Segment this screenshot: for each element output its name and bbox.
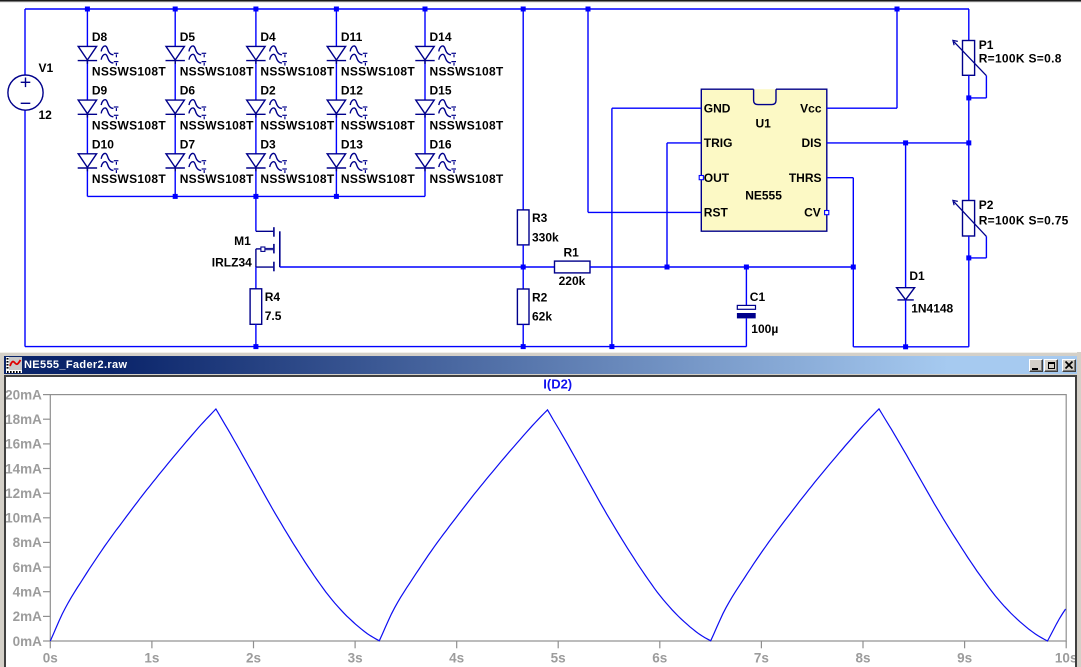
svg-text:I(D2): I(D2) (543, 377, 572, 392)
LED D7 (166, 153, 207, 173)
y tick 18mA (43, 418, 50, 420)
svg-text:THRS: THRS (789, 171, 822, 185)
svg-text:10mA: 10mA (6, 511, 42, 526)
svg-text:100µ: 100µ (751, 322, 778, 336)
pin marker CV (unconnected) (825, 211, 829, 215)
y tick 0mA (43, 640, 50, 642)
x tick 1s (151, 641, 153, 648)
junction node at (255.9,9) (253, 7, 258, 12)
svg-text:2mA: 2mA (13, 609, 43, 624)
pin marker OUT (unconnected) (699, 176, 703, 180)
svg-text:NSSWS108T: NSSWS108T (430, 172, 504, 186)
minimize button (1029, 359, 1043, 372)
svg-text:D6: D6 (180, 84, 196, 98)
y tick 10mA (43, 517, 50, 519)
y tick 6mA (43, 566, 50, 568)
x tick 10s (1065, 641, 1067, 648)
svg-text:D3: D3 (260, 137, 276, 151)
title bar icon (6, 357, 22, 373)
transistor M1 IRLZ34 (NMOS) (256, 227, 280, 271)
svg-text:330k: 330k (532, 230, 559, 244)
x tick 5s (557, 641, 559, 648)
wire LED column anode feed x=87.4 (86, 9, 88, 46)
wire D1 anode from DIS node (905, 143, 907, 288)
wire R4 bottom to ground rail (255, 324, 257, 346)
svg-text:D16: D16 (430, 137, 452, 151)
LED D11 (327, 46, 368, 66)
resistor R2 (517, 289, 529, 324)
svg-text:3s: 3s (348, 650, 363, 665)
wire M1 source to R4 (255, 267, 257, 289)
svg-text:D14: D14 (430, 30, 452, 44)
wire LED column anode feed x=175.2 (174, 9, 176, 46)
maximize button (1044, 359, 1058, 372)
wire DIS pin to P1/P2 node (827, 142, 969, 144)
svg-text:NSSWS108T: NSSWS108T (260, 172, 334, 186)
junction LED rail at (255.9,196.4) (253, 194, 258, 199)
svg-text:Vcc: Vcc (800, 102, 822, 116)
svg-text:D15: D15 (430, 84, 452, 98)
junction THRS branch (851, 265, 856, 270)
svg-text:DIS: DIS (801, 136, 821, 150)
wire C1 bottom to ground rail (745, 318, 747, 346)
svg-text:P1: P1 (979, 38, 994, 52)
y tick 14mA (43, 468, 50, 470)
svg-text:NSSWS108T: NSSWS108T (341, 118, 415, 132)
svg-text:D10: D10 (92, 137, 114, 151)
svg-text:U1: U1 (756, 116, 772, 130)
svg-text:R=100K S=0.8: R=100K S=0.8 (979, 52, 1062, 66)
svg-text:0mA: 0mA (13, 634, 43, 649)
x tick 7s (760, 641, 762, 648)
LED D3 (246, 153, 287, 173)
svg-text:NSSWS108T: NSSWS108T (430, 65, 504, 79)
wire LED column anode feed x=425.0 (424, 9, 426, 46)
LED D15 (415, 100, 456, 120)
resistor R1 (horizontal) (555, 261, 591, 273)
junction DIS at potentiometer column (966, 140, 971, 145)
wire TRIG pin to cap node (667, 142, 701, 144)
window frame highlight (0, 352, 1081, 353)
close button (1062, 359, 1076, 372)
wire cap node down to lower-right rail (852, 267, 854, 347)
svg-text:NSSWS108T: NSSWS108T (92, 118, 166, 132)
svg-text:10s: 10s (1055, 650, 1075, 665)
svg-text:NSSWS108T: NSSWS108T (341, 172, 415, 186)
wire P1 top (968, 9, 970, 41)
wire ground rail (25, 346, 746, 348)
x tick 9s (964, 641, 966, 648)
svg-text:NSSWS108T: NSSWS108T (430, 118, 504, 132)
wire R2 top (522, 267, 524, 289)
resistor R4 (250, 289, 262, 325)
junction P1 wiper (966, 95, 971, 100)
wire P2 bottom (968, 236, 970, 347)
svg-text:NSSWS108T: NSSWS108T (180, 172, 254, 186)
LED D16 (415, 153, 456, 173)
wire R1 right to cap node (590, 266, 853, 268)
x tick 3s (354, 641, 356, 648)
junction node at (336.4,9) (334, 7, 339, 12)
wire THRS pin down to cap node (827, 177, 854, 179)
client sunken edge (4, 375, 1076, 667)
wire P2 wiper hook (985, 236, 987, 258)
svg-text:8mA: 8mA (13, 535, 43, 550)
wire RST pin to supply rail (588, 211, 701, 213)
svg-text:RST: RST (704, 206, 729, 220)
svg-text:D7: D7 (180, 137, 196, 151)
svg-text:TRIG: TRIG (704, 136, 733, 150)
svg-text:NSSWS108T: NSSWS108T (341, 65, 415, 79)
junction node at (523.2,9) (521, 7, 526, 12)
LED D2 (246, 100, 287, 120)
wire P1 wiper hook (985, 76, 987, 98)
svg-text:M1: M1 (234, 234, 251, 248)
title bar (4, 356, 1077, 374)
x tick 4s (456, 641, 458, 648)
junction C1 branch (744, 265, 749, 270)
svg-text:D2: D2 (260, 84, 276, 98)
junction DIS at D1 branch (903, 140, 908, 145)
y tick 20mA (43, 394, 50, 396)
y tick 12mA (43, 492, 50, 494)
LED D14 (415, 46, 456, 66)
junction R3/R2 node (521, 265, 526, 270)
y tick 8mA (43, 541, 50, 543)
junction node at (87.4,9) (85, 7, 90, 12)
junction LED rail at (175.2,196.4) (173, 194, 178, 199)
svg-text:220k: 220k (559, 274, 586, 288)
IC U1 NE555 body (701, 89, 827, 231)
junction ground rail at GND wire (609, 344, 614, 349)
svg-text:NSSWS108T: NSSWS108T (180, 118, 254, 132)
svg-text:V1: V1 (39, 61, 54, 75)
junction lower-right rail at D1 cathode (903, 344, 908, 349)
svg-text:D5: D5 (180, 30, 196, 44)
x tick 8s (862, 641, 864, 648)
svg-text:6mA: 6mA (13, 560, 43, 575)
wire P2 top (968, 143, 970, 201)
wire V1 top (24, 9, 26, 75)
wire C1 top (745, 267, 747, 306)
svg-text:P2: P2 (979, 198, 994, 212)
potentiometer P2 (953, 200, 987, 236)
svg-text:4mA: 4mA (13, 585, 43, 600)
capacitor C1 (polarized) (737, 305, 756, 318)
svg-text:16mA: 16mA (6, 437, 42, 452)
svg-text:R3: R3 (532, 211, 548, 225)
wire Vcc pin to supply rail (827, 107, 897, 109)
svg-text:NSSWS108T: NSSWS108T (180, 65, 254, 79)
svg-text:14mA: 14mA (6, 461, 42, 476)
svg-text:0s: 0s (43, 650, 58, 665)
wire D1 cathode to lower-right rail (905, 300, 907, 347)
svg-text:C1: C1 (750, 290, 766, 304)
wire P1 bottom (968, 75, 970, 143)
svg-text:D4: D4 (260, 30, 276, 44)
svg-text:OUT: OUT (704, 171, 730, 185)
LED D12 (327, 100, 368, 120)
x tick 0s (49, 641, 51, 648)
wire top supply rail (25, 8, 969, 10)
svg-text:D1: D1 (909, 269, 925, 283)
voltage source V1 (8, 75, 43, 110)
svg-text:8s: 8s (855, 650, 870, 665)
junction P2 wiper (966, 255, 971, 260)
y tick 16mA (43, 443, 50, 445)
svg-text:NE555: NE555 (745, 189, 782, 203)
y tick 2mA (43, 615, 50, 617)
LED D10 (78, 153, 119, 173)
junction node at (175.2,9) (173, 7, 178, 12)
svg-text:R4: R4 (265, 290, 281, 304)
junction node at (588.0,9) (586, 7, 591, 12)
svg-text:GND: GND (704, 102, 731, 116)
wire LED column anode feed x=336.4 (335, 9, 337, 46)
junction LED rail at (336.4,196.4) (334, 194, 339, 199)
svg-text:D9: D9 (92, 84, 108, 98)
svg-text:7.5: 7.5 (265, 309, 282, 323)
svg-text:D13: D13 (341, 137, 363, 151)
svg-text:12mA: 12mA (6, 486, 42, 501)
schematic pane (0, 0, 1081, 352)
wire R3 bottom to node (522, 245, 524, 267)
wire gate node from M1 to R1 (280, 266, 555, 268)
svg-text:IRLZ34: IRLZ34 (212, 256, 252, 270)
wire R3 top from supply rail (522, 9, 524, 210)
svg-text:CV: CV (804, 206, 821, 220)
diode D1 1N4148 (897, 288, 915, 300)
x tick 2s (253, 641, 255, 648)
svg-text:NSSWS108T: NSSWS108T (92, 172, 166, 186)
plot area (6, 377, 1075, 667)
svg-text:62k: 62k (532, 309, 552, 323)
svg-text:1s: 1s (144, 650, 159, 665)
x tick 6s (659, 641, 661, 648)
svg-text:R2: R2 (532, 290, 548, 304)
junction node at (425.0,9) (423, 7, 428, 12)
svg-text:2s: 2s (246, 650, 261, 665)
LED D5 (166, 46, 207, 66)
wire LED column anode feed x=255.9 (255, 9, 257, 46)
wire GND pin to ground rail (612, 107, 701, 109)
svg-text:6s: 6s (652, 650, 667, 665)
svg-text:9s: 9s (957, 650, 972, 665)
plot border box (50, 395, 1066, 641)
svg-text:NSSWS108T: NSSWS108T (260, 65, 334, 79)
waveform trace I(D2) (50, 409, 1065, 641)
svg-text:12: 12 (39, 108, 53, 122)
svg-text:NSSWS108T: NSSWS108T (260, 118, 334, 132)
wire R2 bottom to ground rail (522, 324, 524, 346)
svg-text:4s: 4s (449, 650, 464, 665)
right frame edge (1075, 375, 1077, 667)
svg-text:20mA: 20mA (6, 387, 42, 402)
y tick 4mA (43, 591, 50, 593)
waveform viewer window NE555_Fader2.raw (0, 352, 1081, 667)
toolbar bottom border (0, 0, 1081, 1)
svg-text:7s: 7s (754, 650, 769, 665)
LED D9 (78, 100, 119, 120)
wire V1 bottom to ground rail (24, 110, 26, 347)
wire lower-right rail (THRS node) (853, 346, 969, 348)
svg-text:D12: D12 (341, 84, 363, 98)
svg-text:1N4148: 1N4148 (911, 302, 953, 316)
svg-text:NSSWS108T: NSSWS108T (92, 65, 166, 79)
LED D8 (78, 46, 119, 66)
potentiometer P1 (953, 40, 987, 75)
LED D13 (327, 153, 368, 173)
junction ground rail at R2 (521, 344, 526, 349)
wire M1 drain from LED rail (255, 196, 257, 231)
LED D6 (166, 100, 207, 120)
junction ground rail at R4 (253, 344, 258, 349)
svg-text:R1: R1 (564, 245, 580, 259)
svg-text:D8: D8 (92, 30, 108, 44)
wire LED cathode rail (87, 195, 425, 197)
junction node at (897.0,9) (895, 7, 900, 12)
svg-text:R=100K S=0.75: R=100K S=0.75 (979, 213, 1069, 227)
svg-text:D11: D11 (341, 30, 363, 44)
resistor R3 (517, 210, 529, 245)
title text (24, 359, 127, 371)
LED D4 (246, 46, 287, 66)
svg-text:5s: 5s (551, 650, 566, 665)
junction TRIG branch (665, 265, 670, 270)
svg-text:18mA: 18mA (6, 412, 42, 427)
